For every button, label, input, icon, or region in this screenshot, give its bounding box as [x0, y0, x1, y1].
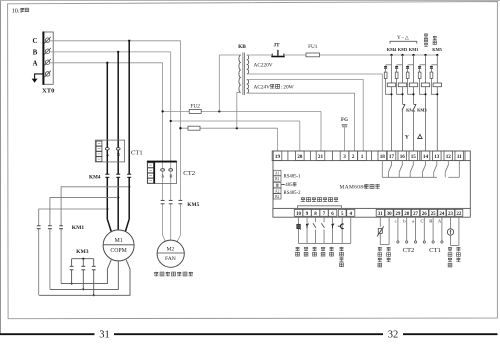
svg-text:FAN: FAN	[165, 256, 176, 262]
svg-text:CT2: CT2	[183, 170, 195, 177]
svg-text:XT0: XT0	[42, 88, 55, 95]
svg-text:21: 21	[318, 154, 324, 160]
svg-text:3: 3	[343, 154, 346, 160]
svg-text:10: 10	[296, 212, 302, 217]
svg-text:MAM6080: MAM6080	[340, 185, 367, 191]
svg-text:30: 30	[387, 212, 393, 217]
svg-text:CT2: CT2	[403, 247, 415, 254]
svg-text:a: a	[412, 219, 414, 224]
svg-text:B: B	[429, 219, 432, 224]
svg-text:A2: A2	[275, 189, 280, 193]
svg-text:25: 25	[431, 212, 437, 217]
svg-text:32: 32	[388, 330, 399, 341]
svg-text:24: 24	[439, 212, 445, 217]
svg-text:FG: FG	[341, 118, 348, 123]
svg-text:485: 485	[285, 183, 293, 188]
svg-text:17: 17	[389, 154, 395, 160]
svg-text:20: 20	[297, 154, 303, 160]
svg-text:B: B	[33, 48, 38, 56]
svg-text:B: B	[117, 152, 120, 157]
svg-text:18: 18	[380, 154, 386, 160]
svg-text:27: 27	[413, 212, 419, 217]
svg-text:19: 19	[275, 154, 281, 160]
svg-text:A: A	[32, 60, 37, 68]
svg-text:KM5: KM5	[187, 202, 199, 208]
svg-text:1: 1	[361, 154, 364, 160]
svg-text:COPM: COPM	[110, 248, 126, 254]
svg-text:Y−△: Y−△	[397, 35, 409, 41]
svg-text:KM1: KM1	[72, 225, 85, 231]
svg-text:: 20W: : 20W	[281, 84, 294, 90]
svg-text:12: 12	[446, 154, 452, 160]
svg-text:KM3: KM3	[417, 107, 427, 112]
svg-text:26: 26	[422, 212, 428, 217]
svg-text:B2: B2	[275, 195, 279, 199]
svg-text:23: 23	[448, 212, 454, 217]
svg-text:AC24V: AC24V	[254, 84, 271, 90]
svg-text:2: 2	[352, 154, 355, 160]
svg-text:29: 29	[395, 212, 401, 217]
svg-text:M2: M2	[167, 247, 175, 253]
svg-text:28: 28	[404, 212, 410, 217]
svg-text:Y: Y	[405, 135, 409, 141]
svg-text:CT1: CT1	[429, 247, 441, 254]
svg-text:CT1: CT1	[131, 150, 143, 157]
svg-text:c: c	[395, 219, 397, 224]
svg-text:KM3: KM3	[76, 249, 89, 255]
svg-text:KM4: KM4	[89, 174, 101, 180]
svg-text:RS485-1: RS485-1	[284, 175, 302, 180]
svg-text:16: 16	[400, 154, 406, 160]
svg-text:22: 22	[456, 212, 462, 217]
svg-text:KM5: KM5	[432, 47, 442, 52]
svg-text:JT: JT	[273, 42, 280, 48]
svg-text:31: 31	[99, 330, 110, 341]
svg-text:FU2: FU2	[190, 104, 200, 110]
svg-text:KM4: KM4	[387, 47, 397, 52]
svg-text:15: 15	[411, 154, 417, 160]
svg-text:AC220V: AC220V	[254, 62, 273, 68]
svg-text:31: 31	[378, 212, 384, 217]
svg-text:B: B	[169, 173, 172, 178]
svg-text:FU1: FU1	[308, 44, 318, 50]
svg-text:14: 14	[423, 154, 429, 160]
svg-text:11: 11	[457, 154, 462, 160]
svg-text:A1: A1	[275, 172, 280, 176]
svg-text:KM3: KM3	[398, 47, 408, 52]
svg-text:KB: KB	[238, 44, 246, 50]
svg-text:RS485-2: RS485-2	[284, 191, 302, 196]
svg-text:KM1: KM1	[409, 47, 418, 52]
svg-text:C: C	[32, 37, 37, 45]
svg-text:13: 13	[434, 154, 440, 160]
svg-text:B1: B1	[275, 177, 279, 181]
svg-text:C: C	[420, 219, 423, 224]
svg-text:M1: M1	[115, 238, 123, 244]
